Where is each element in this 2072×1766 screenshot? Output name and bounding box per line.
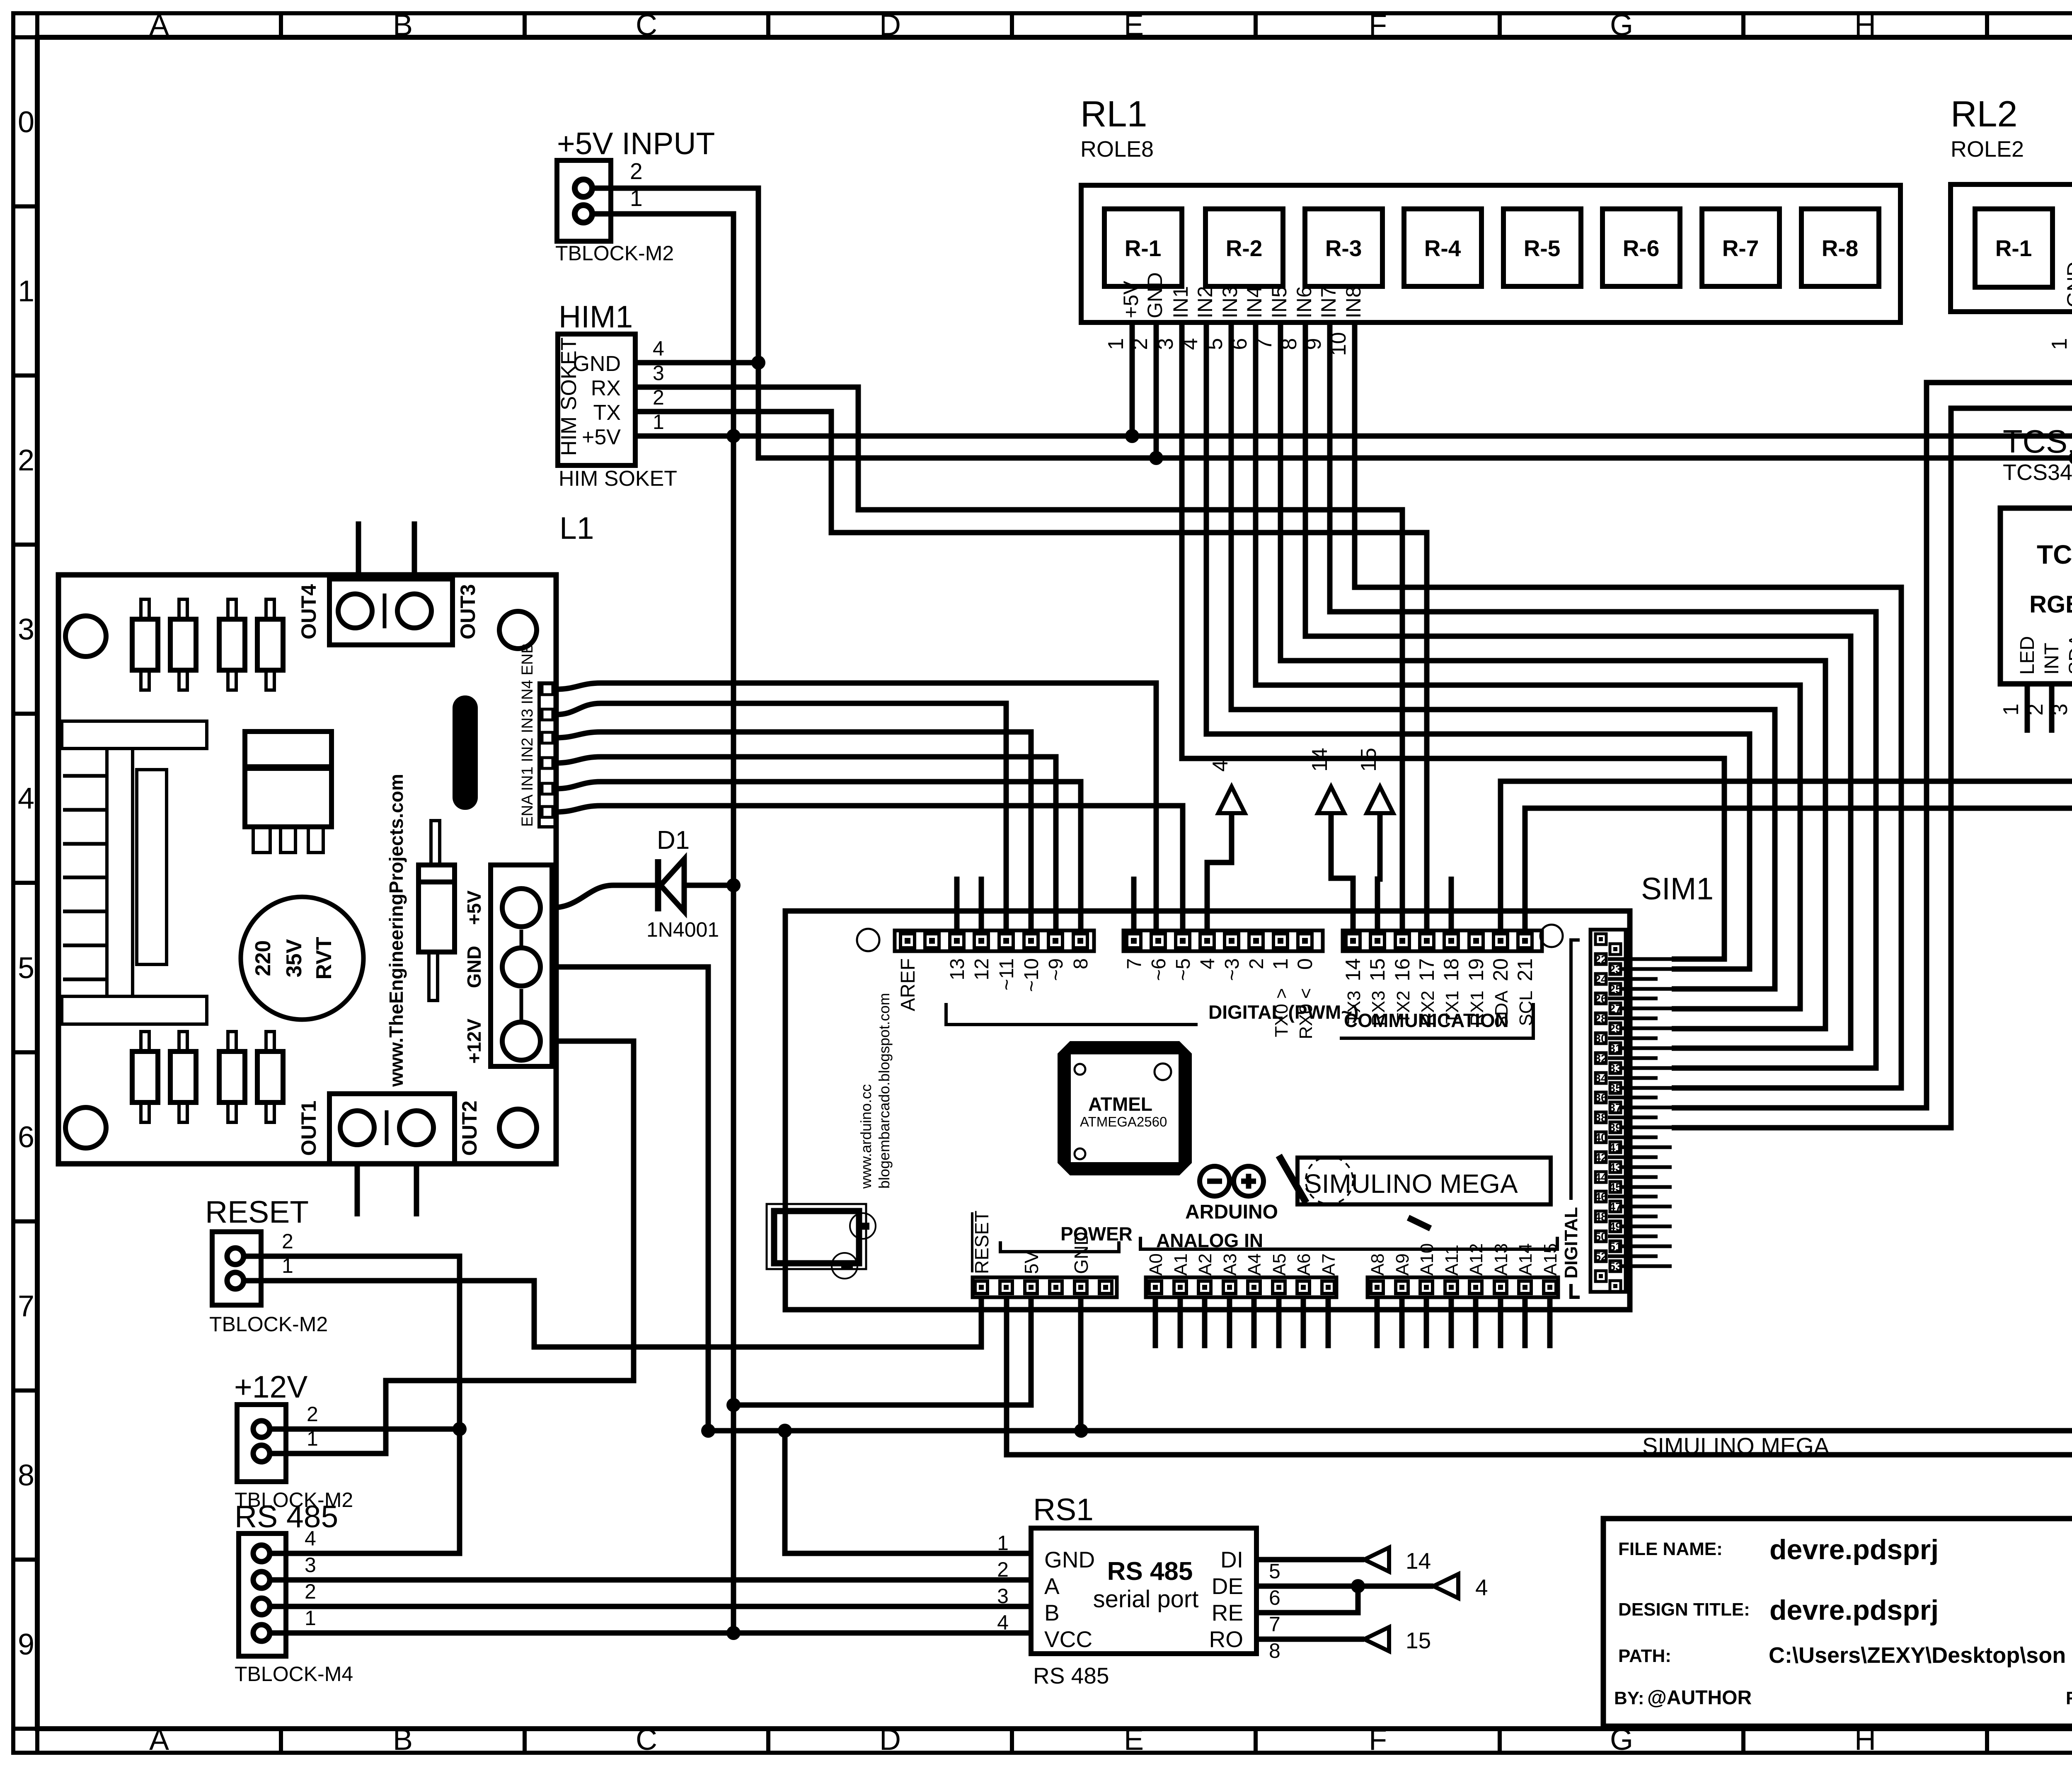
- L1 terminal OUT4: [329, 579, 453, 645]
- L1 mounting hole top-left: [65, 616, 106, 656]
- L1 OUT4 stubs: [356, 521, 361, 579]
- svg-text:A8: A8: [1368, 1253, 1388, 1276]
- svg-text:25: 25: [1609, 983, 1622, 996]
- svg-text:AREF: AREF: [897, 958, 919, 1011]
- wire HIM1 pin3 RX to SIM1 pin16: [635, 387, 1402, 930]
- svg-text:16: 16: [1391, 958, 1414, 981]
- wire +12V pin2 to vertical junction: [269, 1427, 460, 1432]
- svg-text:F: F: [1369, 1723, 1387, 1756]
- svg-text:IN5: IN5: [1268, 286, 1291, 318]
- SIM1 header AREF-8: [895, 930, 1094, 951]
- L1 resistor bottom row x=652: [257, 1051, 283, 1102]
- relay R-6 box: [1602, 209, 1680, 286]
- svg-text:51: 51: [1609, 1240, 1622, 1253]
- svg-text:GND: GND: [463, 946, 485, 988]
- stub pin x=2736: [1131, 877, 1137, 930]
- svg-text:TBLOCK-M2: TBLOCK-M2: [209, 1313, 328, 1336]
- svg-text:0: 0: [18, 106, 34, 139]
- svg-text:IN2: IN2: [1193, 286, 1217, 318]
- wire RL1 IN1 to SIM1 digital header: [1182, 322, 1724, 959]
- svg-text:53: 53: [1609, 1260, 1622, 1273]
- svg-text:42: 42: [1594, 1151, 1607, 1164]
- svg-text:18: 18: [1440, 958, 1463, 981]
- arrow terminal 4 to pin 4: [1207, 813, 1232, 930]
- svg-text:GND: GND: [1143, 272, 1167, 318]
- wire RL1 pin2 GND: [1154, 322, 1159, 458]
- svg-text:21: 21: [1513, 958, 1537, 981]
- svg-text:29: 29: [1609, 1022, 1622, 1035]
- svg-text:28: 28: [1594, 1012, 1607, 1025]
- svg-text:C: C: [636, 1723, 657, 1756]
- svg-text:17: 17: [1415, 958, 1438, 981]
- svg-text:1: 1: [305, 1606, 316, 1630]
- svg-text:30: 30: [1594, 1032, 1607, 1045]
- svg-text:TX: TX: [593, 401, 621, 425]
- svg-text:47: 47: [1609, 1200, 1622, 1213]
- wire SIM1 5V pin to +5V vertical: [733, 1298, 1031, 1405]
- wire L1 header pin 5 to SIM1: [556, 782, 1081, 930]
- svg-text:4: 4: [997, 1611, 1009, 1634]
- svg-text:RS 485: RS 485: [235, 1499, 338, 1534]
- svg-text:36: 36: [1594, 1091, 1607, 1104]
- stub pin x=3502: [1449, 877, 1454, 930]
- svg-text:G: G: [1610, 9, 1633, 42]
- svg-text:A11: A11: [1442, 1245, 1462, 1276]
- L1 resistor top row x=442: [170, 619, 196, 670]
- svg-text:2: 2: [18, 444, 34, 477]
- svg-text:4: 4: [1208, 760, 1232, 772]
- svg-text:RVT: RVT: [312, 937, 336, 979]
- L1 OUT1 stubs: [355, 1164, 360, 1216]
- stub pin x=2368: [979, 877, 984, 930]
- svg-text:L1: L1: [559, 511, 594, 545]
- svg-text:SIMULINO MEGA: SIMULINO MEGA: [1642, 1433, 1830, 1459]
- wire RL1 pin1 +5V: [1130, 322, 1135, 436]
- svg-text:3: 3: [997, 1584, 1009, 1608]
- title block: [1603, 1519, 2072, 1726]
- L1 mounting hole bottom-left: [65, 1107, 106, 1148]
- svg-text:A7: A7: [1319, 1253, 1339, 1276]
- L1 transistor package: [245, 732, 332, 827]
- svg-text:A5: A5: [1269, 1253, 1290, 1276]
- relay R-7 box: [1702, 209, 1779, 286]
- L1 heatsink vertical bar 2: [137, 770, 167, 964]
- svg-text:27: 27: [1609, 1002, 1622, 1015]
- svg-text:ATMEGA2560: ATMEGA2560: [1080, 1114, 1167, 1129]
- L1 resistor top row x=652: [257, 619, 283, 670]
- svg-text:B: B: [393, 1723, 413, 1756]
- svg-text:TBLOCK-M2: TBLOCK-M2: [555, 242, 674, 265]
- svg-text:R-4: R-4: [1424, 235, 1461, 261]
- svg-text:ATMEL: ATMEL: [1088, 1093, 1152, 1115]
- wire RS1 RE joins DE: [1256, 1586, 1358, 1613]
- svg-text:RS 485: RS 485: [1033, 1663, 1109, 1688]
- ARDUINO logo: [1200, 1166, 1230, 1196]
- svg-text:20: 20: [1489, 958, 1512, 981]
- svg-text:8: 8: [1070, 958, 1092, 969]
- svg-text:15: 15: [1406, 1628, 1431, 1653]
- wire TCS1 pin4 SCL to SIM1 pin21: [1525, 684, 2072, 930]
- svg-text:45: 45: [1609, 1181, 1622, 1194]
- svg-text:E: E: [1124, 1723, 1144, 1756]
- svg-text:OUT4: OUT4: [297, 584, 320, 640]
- svg-text:RS 485: RS 485: [1107, 1557, 1193, 1586]
- svg-text:44: 44: [1594, 1171, 1607, 1184]
- svg-text:1: 1: [1999, 704, 2023, 716]
- svg-text:+5V: +5V: [463, 890, 485, 925]
- svg-text:R-6: R-6: [1623, 235, 1660, 261]
- svg-text:DI: DI: [1220, 1547, 1243, 1572]
- svg-text:1: 1: [1104, 338, 1128, 350]
- svg-text:A0: A0: [1146, 1253, 1166, 1276]
- L1 vertical diode component: [431, 821, 440, 865]
- svg-text:devre.pdsprj: devre.pdsprj: [1769, 1534, 1939, 1565]
- L1 terminal OUT1: [329, 1094, 455, 1164]
- svg-text:2: 2: [282, 1230, 293, 1253]
- svg-text:2: 2: [305, 1580, 316, 1603]
- svg-text:@AUTHOR: @AUTHOR: [1647, 1687, 1752, 1709]
- svg-text:TCS34725: TCS34725: [2037, 540, 2072, 569]
- svg-text:38: 38: [1594, 1111, 1607, 1124]
- svg-text:A4: A4: [1244, 1253, 1265, 1276]
- SIM1 USB connector: [767, 1204, 866, 1269]
- svg-text:14: 14: [1406, 1548, 1431, 1574]
- svg-text:23: 23: [1609, 963, 1622, 976]
- wire SIM1 GND pin to GND trunk: [1078, 1298, 1084, 1431]
- L1 heatsink vertical bar 1: [107, 749, 133, 996]
- wire RS485 block pin1 / RS1 VCC +5V: [269, 1630, 1031, 1636]
- wire RS485 block pin3 to RS1 A: [269, 1577, 1031, 1583]
- svg-text:A9: A9: [1392, 1253, 1413, 1276]
- svg-text:VCC: VCC: [1044, 1626, 1092, 1652]
- svg-text:REV:: REV:: [2066, 1688, 2072, 1708]
- svg-text:A13: A13: [1491, 1243, 1511, 1276]
- svg-text:RL1: RL1: [1080, 93, 1147, 134]
- wire TCS1 pin5 to GND trunk (L1 GND, RS1 GND, SIM1 GND): [556, 684, 2072, 1431]
- wire HIM1 pin4 GND: [635, 360, 758, 366]
- svg-text:D: D: [879, 1723, 901, 1756]
- wire RL2 pin3 IN2 to SIM1: [1672, 312, 2072, 1128]
- svg-text:RS1: RS1: [1033, 1492, 1094, 1527]
- svg-text:A3: A3: [1220, 1253, 1240, 1276]
- svg-text:2: 2: [307, 1403, 318, 1426]
- wire L1 header pin 1 to SIM1: [556, 683, 1156, 930]
- svg-text:RO: RO: [1209, 1626, 1244, 1652]
- svg-text:ARDUINO: ARDUINO: [1185, 1201, 1278, 1223]
- chip ATMEGA2560: [1058, 1041, 1192, 1175]
- relay R-8 box: [1801, 209, 1879, 286]
- svg-text:SDA: SDA: [2065, 634, 2072, 675]
- svg-text:6: 6: [1269, 1586, 1280, 1609]
- svg-text:+12V: +12V: [234, 1369, 307, 1404]
- svg-text:14: 14: [1341, 958, 1365, 981]
- wire L1 header pin 6 to SIM1: [556, 806, 1183, 930]
- L1 resistor top row x=560: [219, 619, 245, 670]
- svg-text:40: 40: [1594, 1131, 1607, 1144]
- svg-text:A15: A15: [1540, 1243, 1561, 1276]
- svg-text:PATH:: PATH:: [1618, 1646, 1671, 1666]
- svg-text:33: 33: [1609, 1062, 1622, 1075]
- wire RL1 IN3 to SIM1 digital header: [1231, 322, 1775, 989]
- border column ticks and letters: [35, 15, 39, 37]
- svg-text:ROLE2: ROLE2: [1951, 137, 2024, 162]
- svg-text:8: 8: [18, 1459, 34, 1492]
- SIM1 header 7-0: [1123, 930, 1323, 951]
- svg-text:DIGITAL (PWM~): DIGITAL (PWM~): [1208, 1001, 1358, 1023]
- svg-text:32: 32: [1594, 1052, 1607, 1065]
- svg-text:A10: A10: [1417, 1243, 1437, 1276]
- svg-text:GND: GND: [2063, 262, 2072, 308]
- stub pin x=2309: [954, 877, 960, 930]
- relay R-1 box: [1975, 209, 2053, 287]
- svg-text:TBLOCK-M4: TBLOCK-M4: [235, 1662, 353, 1686]
- svg-text:A: A: [149, 1723, 169, 1756]
- svg-text:14: 14: [1308, 748, 1332, 772]
- svg-text:26: 26: [1594, 992, 1607, 1005]
- wire TCS1 pin1 LED stub: [2025, 684, 2030, 733]
- svg-text:OUT3: OUT3: [456, 584, 479, 639]
- svg-text:~11: ~11: [996, 958, 1018, 991]
- svg-text:IN1: IN1: [1169, 286, 1192, 318]
- svg-text:1: 1: [2048, 338, 2072, 350]
- svg-text:GND: GND: [573, 352, 621, 376]
- svg-text:35: 35: [1609, 1082, 1622, 1095]
- wire L1 GND terminal hook: [552, 964, 708, 970]
- svg-text:+5V: +5V: [1119, 281, 1143, 318]
- svg-text:R-5: R-5: [1524, 235, 1561, 261]
- L1 heatsink fins: [63, 774, 107, 778]
- svg-text:R-8: R-8: [1822, 235, 1859, 261]
- svg-text:4: 4: [18, 782, 34, 815]
- svg-text:46: 46: [1594, 1190, 1607, 1203]
- svg-text:6: 6: [18, 1121, 34, 1154]
- wire RS1 DE to arrow 4: [1256, 1584, 1433, 1589]
- svg-text:19: 19: [1464, 958, 1488, 981]
- svg-text:4: 4: [305, 1527, 316, 1550]
- svg-text:www.arduino.cc: www.arduino.cc: [857, 1084, 874, 1189]
- svg-text:C:\Users\ZEXY\Desktop\son dene: C:\Users\ZEXY\Desktop\son deneme\devre\d…: [1769, 1643, 2072, 1668]
- arrow terminal 14 to pin TX3 14: [1331, 813, 1353, 930]
- svg-text:RL2: RL2: [1951, 93, 2017, 134]
- wire RL2 pin2 IN1 to SIM1: [1672, 312, 2072, 1108]
- wire RL1 IN7 to SIM1 digital header: [1330, 322, 1876, 1068]
- wire RS1 DI to arrow 14: [1256, 1557, 1364, 1563]
- wire RL1 IN6 to SIM1 digital header: [1305, 322, 1851, 1048]
- svg-text:LED: LED: [2016, 636, 2038, 675]
- svg-text:~6: ~6: [1148, 958, 1170, 981]
- svg-text:4: 4: [653, 337, 664, 360]
- svg-text:0: 0: [1293, 958, 1317, 970]
- svg-text:OUT1: OUT1: [297, 1100, 320, 1156]
- wire SIM1 RESET pin to RESET block pin1: [243, 1281, 981, 1347]
- svg-text:5: 5: [18, 952, 34, 985]
- svg-text:+5V: +5V: [582, 425, 621, 449]
- svg-text:SIM1: SIM1: [1641, 871, 1714, 906]
- svg-text:H: H: [1854, 9, 1876, 42]
- svg-text:7: 7: [18, 1290, 34, 1323]
- svg-text:R-1: R-1: [1995, 235, 2032, 261]
- svg-text:2: 2: [630, 158, 643, 184]
- wire L1 header pin 2 to SIM1: [556, 703, 1006, 930]
- svg-text:5: 5: [1269, 1560, 1280, 1583]
- svg-text:34: 34: [1594, 1072, 1607, 1085]
- relay R-5 box: [1503, 209, 1581, 286]
- relay R-4 box: [1404, 209, 1481, 286]
- wire RL1 IN5 to SIM1 digital header: [1280, 322, 1825, 1029]
- svg-text:F: F: [1369, 9, 1387, 42]
- svg-text:IN6: IN6: [1293, 286, 1316, 318]
- L1 resistor bottom row x=350: [132, 1051, 158, 1102]
- L1 heatsink bottom bar: [62, 996, 207, 1024]
- svg-text:13: 13: [946, 958, 968, 980]
- SIMULINO MEGA label box: [1297, 1158, 1551, 1204]
- svg-text:A: A: [1044, 1573, 1060, 1599]
- wire TCS1 pin3 SDA to SIM1 pin20: [1501, 684, 2072, 930]
- svg-text:~10: ~10: [1021, 958, 1043, 992]
- wire RS1 RO to arrow 15: [1256, 1637, 1364, 1642]
- relay R-3 box: [1305, 209, 1382, 286]
- L1 heatsink top bar: [62, 721, 207, 749]
- wire RL1 IN4 to SIM1 digital header: [1256, 322, 1800, 1009]
- svg-text:HIM SOKET: HIM SOKET: [559, 467, 677, 491]
- svg-text:1N4001: 1N4001: [646, 918, 719, 941]
- stub pin x=3443: [1424, 877, 1430, 930]
- svg-text:RESET: RESET: [971, 1211, 992, 1274]
- svg-text:IN7: IN7: [1317, 286, 1340, 318]
- svg-text:RX: RX: [591, 376, 621, 400]
- SIM1 board hole left of AREF: [857, 929, 879, 951]
- svg-text:D: D: [879, 9, 901, 42]
- junction dots: [751, 356, 765, 370]
- svg-text:RE: RE: [1212, 1600, 1243, 1625]
- wire TCS1 pin2 INT stub: [2049, 684, 2055, 733]
- svg-text:R-2: R-2: [1226, 235, 1263, 261]
- svg-text:B: B: [1044, 1600, 1060, 1625]
- svg-text:A6: A6: [1294, 1253, 1314, 1276]
- svg-text:DE: DE: [1212, 1573, 1243, 1599]
- border row ticks and numbers: [15, 35, 37, 39]
- svg-text:RGB Sensor: RGB Sensor: [2029, 591, 2072, 618]
- wire RS485 block pin2 to RS1 B: [269, 1604, 1031, 1609]
- svg-text:TCS34725: TCS34725: [2003, 460, 2072, 485]
- svg-text:50: 50: [1594, 1230, 1607, 1243]
- relay R-1 box: [1104, 209, 1182, 286]
- wire RS1 GND to GND trunk: [785, 1431, 1031, 1553]
- svg-text:ROLE8: ROLE8: [1080, 137, 1154, 162]
- svg-text:C: C: [636, 9, 657, 42]
- svg-text:A14: A14: [1515, 1243, 1536, 1276]
- svg-text:3: 3: [18, 613, 34, 646]
- svg-text:BY:: BY:: [1614, 1688, 1644, 1708]
- L1 resistor top row x=350: [132, 619, 158, 670]
- svg-text:B: B: [393, 9, 413, 42]
- svg-text:220: 220: [251, 940, 275, 976]
- svg-text:4: 4: [1475, 1575, 1488, 1600]
- svg-text:IN8: IN8: [1342, 286, 1365, 318]
- wire D1 anode to +5V vertical: [684, 883, 733, 888]
- svg-text:4: 4: [1197, 958, 1219, 969]
- svg-text:12: 12: [971, 958, 993, 980]
- svg-text:+12V: +12V: [463, 1018, 485, 1063]
- arrow terminal 15 to pin RX3 15: [1377, 813, 1380, 930]
- svg-text:48: 48: [1594, 1210, 1607, 1223]
- svg-text:GND: GND: [1070, 1232, 1092, 1274]
- svg-text:A12: A12: [1466, 1243, 1486, 1276]
- wire L1 header pin 4 to SIM1: [556, 757, 1056, 930]
- svg-text:3: 3: [305, 1553, 316, 1577]
- L1 resistor bottom row x=442: [170, 1051, 196, 1102]
- svg-text:devre.pdsprj: devre.pdsprj: [1769, 1594, 1939, 1626]
- L1 black oblong component: [453, 695, 478, 810]
- svg-text:7: 7: [1269, 1613, 1280, 1636]
- L1 resistor bottom row x=560: [219, 1051, 245, 1102]
- DIGITAL (PWM~) bracket: [946, 1003, 1198, 1025]
- wire RL1 IN8 to SIM1 digital header: [1355, 322, 1901, 1088]
- svg-text:DESIGN TITLE:: DESIGN TITLE:: [1618, 1599, 1750, 1620]
- svg-text:52: 52: [1594, 1250, 1607, 1263]
- DIGITAL header stubs: [1608, 959, 1672, 1266]
- wire GND net: +5V INPUT pin2 to HIM1 GND, RL1 GND, RL2 GND, TCS GND: [592, 188, 2072, 812]
- svg-text:GND: GND: [1044, 1547, 1095, 1572]
- svg-text:A: A: [149, 9, 169, 42]
- svg-text:1: 1: [1269, 958, 1292, 970]
- svg-text:D1: D1: [657, 826, 690, 855]
- svg-text:IN4: IN4: [1243, 286, 1266, 318]
- svg-text:www.TheEngineeringProjects.com: www.TheEngineeringProjects.com: [385, 774, 407, 1087]
- wire L1 +12V terminal to +12V block pin1: [269, 1041, 634, 1453]
- analog pin stubs: [1153, 1298, 1158, 1348]
- wire L1 +5V terminal to D1: [552, 885, 658, 908]
- svg-text:INT: INT: [2041, 643, 2063, 675]
- svg-text:SIMULINO MEGA: SIMULINO MEGA: [1304, 1169, 1518, 1199]
- svg-text:24: 24: [1594, 973, 1607, 986]
- relay R-2 box: [1205, 209, 1283, 286]
- L1 electrolytic capacitor 220uF 35V: [241, 897, 363, 1020]
- svg-text:~5: ~5: [1172, 958, 1194, 981]
- svg-text:R-7: R-7: [1722, 235, 1759, 261]
- svg-text:~9: ~9: [1045, 958, 1067, 981]
- svg-text:31: 31: [1609, 1042, 1622, 1055]
- svg-text:E: E: [1124, 9, 1144, 42]
- svg-text:OUT2: OUT2: [458, 1100, 481, 1156]
- svg-text:DIGITAL: DIGITAL: [1561, 1207, 1581, 1279]
- SIM1 board hole right of COMM: [1540, 925, 1563, 947]
- svg-text:1: 1: [18, 275, 34, 308]
- wire TCS1 pin6 GND to SIM1 power pin2: [1007, 684, 2072, 1455]
- svg-text:8: 8: [1269, 1639, 1280, 1662]
- wire +5V INPUT pin1 vertical: [592, 214, 733, 1633]
- wire L1 header pin 3 to SIM1: [556, 732, 1031, 930]
- svg-text:43: 43: [1609, 1161, 1622, 1174]
- svg-text:~3: ~3: [1221, 958, 1243, 981]
- svg-text:9: 9: [18, 1628, 34, 1661]
- wire RL1 IN2 to SIM1 digital header: [1206, 322, 1750, 969]
- svg-text:5V: 5V: [1021, 1250, 1042, 1274]
- svg-text:2: 2: [997, 1558, 1009, 1581]
- svg-text:15: 15: [1366, 958, 1389, 981]
- svg-text:37: 37: [1609, 1101, 1622, 1114]
- svg-text:7: 7: [1123, 958, 1145, 969]
- svg-text:R-1: R-1: [1125, 235, 1162, 261]
- svg-text:IN3: IN3: [1218, 286, 1242, 318]
- svg-text:HIM1: HIM1: [559, 299, 633, 334]
- L1 power terminal +5V GND +12V: [491, 865, 552, 1066]
- svg-text:A2: A2: [1195, 1253, 1215, 1276]
- wire HIM1 pin2 TX to SIM1 pin17: [635, 412, 1427, 930]
- svg-text:FILE NAME:: FILE NAME:: [1618, 1539, 1723, 1559]
- svg-text:COMMUNICATION: COMMUNICATION: [1344, 1010, 1509, 1031]
- SIM1 header COMMUNICATION TX3 14 - SCL 21: [1343, 930, 1542, 951]
